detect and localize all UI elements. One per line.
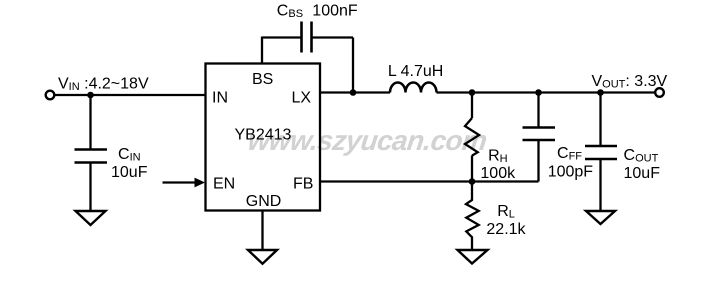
wire GND pin down — [261, 211, 263, 251]
wire CBS right to LX drop — [312, 36, 354, 38]
svg-text:IN: IN — [212, 90, 228, 107]
capacitor CBS — [302, 22, 312, 53]
svg-text:100nF: 100nF — [312, 3, 358, 20]
ground (CIN) — [76, 211, 106, 225]
resistor RL — [466, 182, 479, 251]
label RL 22.1k — [486, 203, 526, 238]
IC U1 YB2413 body — [206, 64, 321, 211]
label CIN 10uF — [111, 146, 148, 181]
inductor L 4.7uH — [390, 83, 437, 93]
wire CFF bottom to FB net — [537, 140, 539, 182]
node LX junction — [350, 89, 357, 96]
node VIN junction — [87, 92, 94, 99]
svg-text:GND: GND — [246, 193, 282, 210]
wire FB pin to CFF bottom (FB net) — [321, 180, 539, 182]
wire rail to COUT — [599, 93, 601, 147]
label CBS 100nF — [277, 3, 358, 21]
svg-text:100k: 100k — [480, 165, 516, 182]
svg-text:YB2413: YB2413 — [235, 127, 292, 144]
output terminal VOUT — [655, 88, 664, 97]
wire CIN to ground — [89, 163, 91, 212]
label RH 100k — [480, 148, 516, 183]
wire COUT to ground — [599, 159, 601, 211]
svg-text:LX: LX — [292, 90, 312, 107]
svg-text:10uF: 10uF — [624, 165, 661, 182]
svg-text:EN: EN — [213, 176, 235, 193]
svg-text:10uF: 10uF — [111, 164, 148, 181]
node VOUT rail junction CFF — [535, 89, 542, 96]
watermark www.szyucan.com — [246, 125, 489, 156]
node FB junction — [469, 178, 476, 185]
label CFF 100pF — [548, 145, 594, 181]
svg-text:22.1k: 22.1k — [486, 221, 526, 238]
ground (COUT) — [586, 211, 615, 224]
wire input to IN pin — [55, 94, 206, 96]
wire BS to CBS left — [262, 36, 302, 38]
wire VIN node to CIN — [89, 95, 91, 150]
EN enable arrow — [163, 178, 206, 188]
svg-text:100pF: 100pF — [548, 164, 594, 181]
node VOUT rail junction COUT — [597, 89, 604, 96]
capacitor CIN — [75, 150, 108, 163]
wire down to LX node — [352, 38, 354, 93]
wire RH to FB node — [471, 156, 473, 182]
svg-text:L 4.7uH: L 4.7uH — [388, 63, 443, 80]
ground (RL) — [458, 250, 488, 264]
svg-text:BS: BS — [252, 71, 273, 88]
node VOUT rail junction RH — [469, 89, 476, 96]
capacitor COUT — [585, 146, 617, 159]
label COUT 10uF — [624, 147, 661, 182]
svg-text:FB: FB — [293, 176, 313, 193]
wire BS pin up — [261, 37, 263, 64]
capacitor CFF — [523, 128, 556, 141]
wire inductor to VOUT terminal — [437, 91, 656, 93]
resistor RH — [465, 118, 479, 156]
ground (GND pin) — [248, 250, 277, 264]
wire LX pin to inductor — [321, 91, 391, 93]
wire rail to CFF — [537, 93, 539, 128]
wire rail to RH — [471, 93, 473, 119]
input terminal VIN — [46, 91, 55, 100]
